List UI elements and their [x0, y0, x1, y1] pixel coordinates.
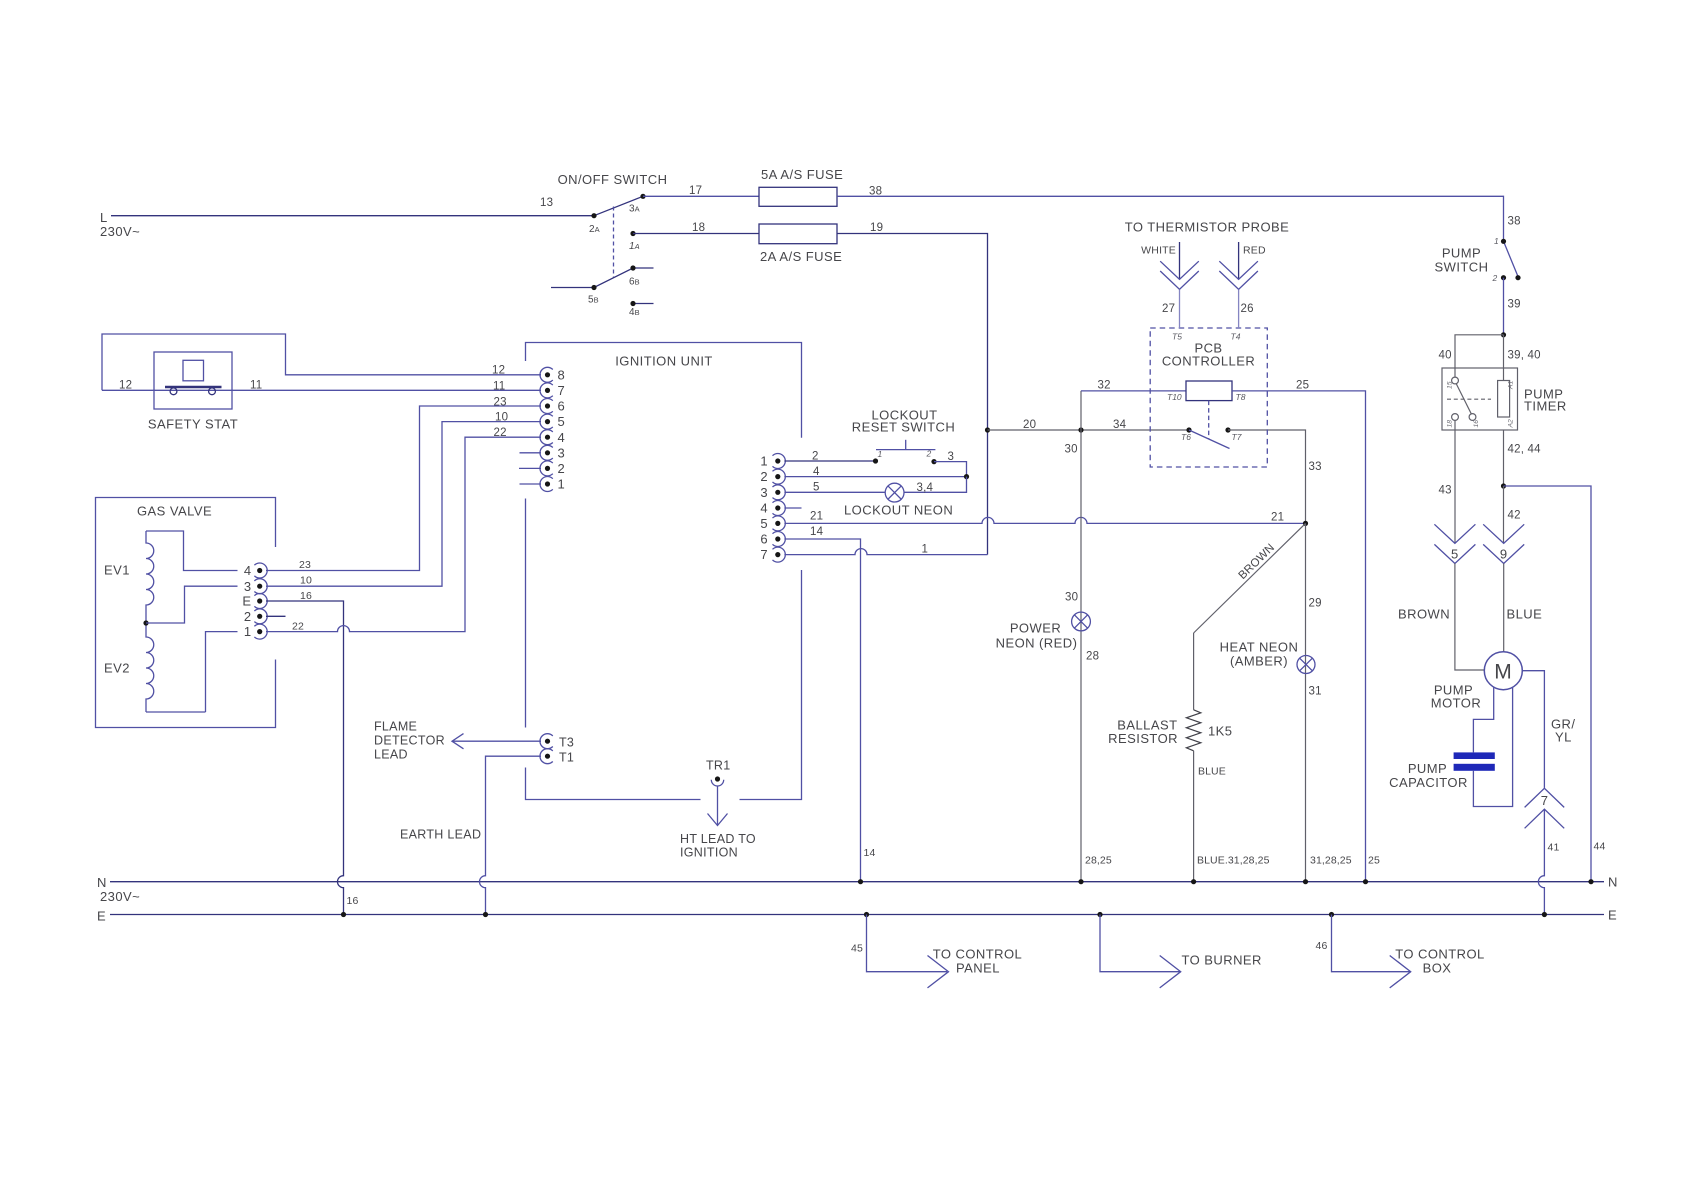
junction EV1-EV2 [143, 620, 148, 625]
svg-text:T3: T3 [559, 736, 574, 750]
svg-text:2: 2 [926, 449, 932, 459]
svg-text:T4: T4 [1231, 332, 1241, 342]
switch contact dot 1A [630, 231, 635, 236]
ignition terminal T1 [540, 749, 574, 765]
svg-text:5B: 5B [588, 295, 599, 306]
svg-text:7: 7 [760, 547, 768, 562]
ignition connector pin 7 [760, 547, 785, 562]
junction wire 3/4 [964, 474, 969, 479]
pump switch dot 2 [1501, 275, 1506, 280]
wire 3 from reset switch [934, 462, 967, 477]
wire 12 loop to ignition pin 8 [102, 334, 541, 390]
fuse F2 body [759, 224, 837, 244]
svg-text:FLAME: FLAME [374, 720, 417, 734]
svg-text:31,28,25: 31,28,25 [1310, 855, 1352, 867]
wire red lead [1238, 242, 1240, 279]
wire blue junction on N [1191, 879, 1196, 884]
svg-text:34: 34 [1113, 419, 1127, 431]
wire 27 [1179, 290, 1181, 328]
svg-text:2A A/S FUSE: 2A A/S FUSE [760, 249, 842, 264]
svg-text:EV1: EV1 [104, 563, 130, 578]
svg-text:1A: 1A [629, 241, 640, 252]
svg-text:44: 44 [1594, 841, 1606, 853]
HT lead arrow [708, 786, 728, 826]
svg-text:16: 16 [347, 895, 359, 907]
svg-text:5: 5 [813, 482, 820, 494]
svg-text:3A: 3A [629, 204, 640, 215]
flame detector lead label [374, 720, 445, 762]
HT lead label [680, 832, 756, 860]
junction 39/40 [1501, 332, 1506, 337]
wire EV1 top to pin 4 [146, 531, 238, 571]
pump motor label [1431, 683, 1481, 711]
pump timer label [1524, 387, 1567, 414]
ignition pin 1 stub [520, 483, 542, 485]
safety stat contact circle left [170, 388, 177, 395]
ballast resistor R1 1K5 [1186, 710, 1200, 751]
svg-text:1: 1 [558, 477, 566, 492]
svg-text:(AMBER): (AMBER) [1230, 654, 1288, 669]
svg-text:25: 25 [1296, 380, 1309, 392]
svg-text:E: E [242, 594, 251, 609]
pump timer circle 16 [1469, 414, 1476, 421]
svg-text:42, 44: 42, 44 [1508, 444, 1542, 456]
svg-text:1: 1 [878, 449, 883, 459]
wire 45 junction on E [864, 912, 869, 917]
svg-text:HEAT NEON: HEAT NEON [1220, 640, 1299, 655]
wire blue below resistor [1193, 751, 1195, 882]
wire to burner arrow [1100, 915, 1181, 988]
svg-text:T7: T7 [1232, 432, 1242, 442]
svg-text:30: 30 [1065, 444, 1078, 456]
wire 14 junction on N [858, 879, 863, 884]
pump switch dot 1 [1501, 239, 1506, 244]
safety stat contact bar [165, 386, 222, 388]
svg-text:16: 16 [300, 590, 312, 602]
svg-text:28,25: 28,25 [1085, 855, 1112, 867]
svg-text:1: 1 [922, 544, 929, 556]
ignition connector pin 3 [760, 485, 785, 500]
svg-text:2: 2 [812, 451, 819, 463]
svg-text:10: 10 [300, 575, 312, 587]
svg-text:E: E [97, 909, 106, 924]
svg-text:L: L [100, 210, 108, 225]
wire capacitor bottom loop [1473, 688, 1512, 807]
ignition unit pin 8 [540, 367, 565, 382]
pump capacitor label [1389, 761, 1468, 790]
PCB relay contact T7 dot [1225, 427, 1230, 432]
svg-text:SWITCH: SWITCH [1435, 260, 1489, 275]
solenoid EV2 coil [146, 623, 154, 712]
svg-text:8: 8 [558, 367, 566, 382]
svg-text:1: 1 [760, 454, 768, 469]
power neon label [996, 621, 1078, 651]
pump capacitor C1 plates [1454, 752, 1495, 770]
wire motor to GR/YL [1522, 671, 1544, 788]
ignition connector pin 1 [760, 454, 785, 469]
svg-text:16: 16 [1473, 420, 1480, 428]
svg-text:IGNITION: IGNITION [680, 846, 738, 860]
wire 32 [1081, 390, 1186, 392]
svg-text:BLUE.31,28,25: BLUE.31,28,25 [1197, 855, 1270, 867]
svg-text:11: 11 [250, 380, 262, 392]
svg-text:RESET SWITCH: RESET SWITCH [852, 420, 955, 435]
switch contact 4B stub [633, 303, 654, 305]
svg-text:45: 45 [851, 943, 863, 955]
svg-text:11: 11 [493, 381, 505, 393]
svg-text:14: 14 [810, 526, 824, 538]
wire 14 pin6 down to N [784, 539, 860, 882]
svg-text:42: 42 [1508, 510, 1521, 522]
svg-text:3: 3 [244, 579, 252, 594]
ignition terminal T3 [540, 734, 574, 750]
svg-text:7: 7 [1541, 793, 1549, 808]
ignition connector pin 6 [760, 532, 785, 547]
wire 17 [643, 195, 759, 197]
wire 42 [1503, 486, 1505, 543]
ignition pin 3 stub [520, 452, 542, 454]
svg-text:A1: A1 [1508, 380, 1515, 390]
pump timer blade [1456, 384, 1471, 414]
power neon lamp [1072, 612, 1091, 631]
pump switch dot 2b [1515, 275, 1520, 280]
wire 33 [1228, 430, 1306, 523]
lockout reset switch bracket [876, 440, 935, 450]
svg-text:T5: T5 [1172, 332, 1182, 342]
gas valve pin 2 [244, 609, 267, 624]
wire 40 [1455, 335, 1504, 377]
connector chevrons pin 5 [1434, 524, 1475, 563]
svg-text:2: 2 [760, 469, 768, 484]
switch contact dot 2A [591, 213, 596, 218]
svg-text:1: 1 [244, 624, 252, 639]
PCB coil to contact dashed link [1208, 401, 1210, 439]
svg-text:20: 20 [1023, 419, 1036, 431]
svg-text:43: 43 [1439, 485, 1452, 497]
pump motor M1 [1484, 652, 1522, 690]
gas valve pin E [242, 594, 267, 609]
svg-text:PUMP: PUMP [1442, 246, 1481, 261]
svg-text:HT LEAD TO: HT LEAD TO [680, 832, 756, 846]
svg-text:41: 41 [1548, 842, 1560, 854]
svg-text:IGNITION UNIT: IGNITION UNIT [615, 354, 713, 369]
svg-text:4: 4 [813, 466, 820, 478]
wire 46 junction on E [1329, 912, 1334, 917]
wire 16 gas valve pin E to earth [266, 601, 344, 915]
wire to timer A1 [1503, 335, 1505, 381]
svg-text:5: 5 [1451, 547, 1459, 562]
svg-text:22: 22 [292, 621, 304, 633]
svg-text:BLUE: BLUE [1198, 766, 1226, 778]
wire 41 junction on E [1542, 912, 1547, 917]
svg-text:BROWN: BROWN [1237, 542, 1278, 582]
ignition unit pin 5 [540, 414, 565, 429]
svg-text:T1: T1 [559, 751, 574, 765]
junction 42/44 [1501, 483, 1506, 488]
pump timer dashed line [1447, 398, 1491, 400]
svg-text:T8: T8 [1236, 392, 1246, 402]
switch contact dot 3A [640, 194, 645, 199]
svg-text:ON/OFF SWITCH: ON/OFF SWITCH [558, 172, 668, 187]
connector chevrons pin 7 up [1525, 788, 1565, 828]
svg-text:TO THERMISTOR PROBE: TO THERMISTOR PROBE [1125, 220, 1290, 235]
wire EV midpoint to pin 3 [146, 586, 238, 623]
lockout reset switch label [852, 408, 955, 435]
svg-text:3: 3 [760, 485, 768, 500]
svg-text:4: 4 [558, 430, 566, 445]
svg-text:3,4: 3,4 [917, 482, 934, 494]
PCB relay contact blade [1189, 430, 1230, 449]
svg-text:21: 21 [1271, 512, 1284, 524]
wire 19 [837, 234, 988, 555]
svg-text:LOCKOUT NEON: LOCKOUT NEON [844, 503, 953, 518]
svg-text:T6: T6 [1181, 432, 1191, 442]
svg-text:12: 12 [119, 380, 132, 392]
svg-text:39, 40: 39, 40 [1508, 350, 1541, 362]
svg-text:18: 18 [692, 222, 705, 234]
svg-text:PANEL: PANEL [956, 961, 1000, 976]
svg-text:5: 5 [558, 414, 566, 429]
heat neon lamp [1297, 656, 1315, 674]
PCB controller box dashed [1150, 328, 1267, 467]
connector chevrons red lead [1219, 261, 1258, 289]
junction 20/30 [1078, 427, 1083, 432]
svg-text:TO CONTROL: TO CONTROL [1395, 947, 1485, 962]
terminal TR1 pin [711, 776, 723, 786]
wire 25 [1232, 391, 1366, 882]
ignition unit pin 6 [540, 399, 565, 414]
svg-text:CAPACITOR: CAPACITOR [1389, 775, 1468, 790]
to control panel label [933, 947, 1023, 976]
svg-text:23: 23 [494, 397, 507, 409]
node L 230V~ live rail label [100, 210, 140, 239]
lockout neon lamp [885, 483, 904, 502]
svg-text:2: 2 [558, 461, 566, 476]
switch contact dot 6B [630, 265, 635, 270]
wire 38 [837, 196, 1504, 241]
wire E rail [110, 914, 1604, 916]
svg-text:6B: 6B [629, 277, 640, 288]
wire brown diagonal [1194, 523, 1306, 633]
heat neon label [1220, 640, 1299, 669]
svg-text:SAFETY STAT: SAFETY STAT [148, 417, 238, 432]
wire 43 [1454, 421, 1456, 544]
svg-text:CONTROLLER: CONTROLLER [1162, 354, 1255, 369]
svg-text:YL: YL [1555, 730, 1572, 745]
safety stat ST1 box [154, 352, 232, 409]
svg-text:N: N [1608, 875, 1618, 890]
wire 44 junction on N [1588, 879, 1593, 884]
wire L rail [111, 215, 594, 217]
ignition connector pin 2 [760, 469, 785, 484]
svg-text:TO BURNER: TO BURNER [1182, 953, 1262, 968]
svg-text:230V~: 230V~ [100, 889, 140, 904]
svg-text:POWER: POWER [1010, 621, 1061, 636]
ignition unit pin 4 [540, 430, 565, 445]
svg-text:18: 18 [1447, 420, 1454, 428]
gas valve pin 1 [244, 624, 267, 639]
wire 5 pin3 to lockout neon [784, 491, 885, 493]
svg-text:1: 1 [1494, 236, 1499, 246]
ignition pin 4 stub right [784, 507, 801, 509]
svg-text:LEAD: LEAD [374, 748, 408, 762]
svg-text:5: 5 [760, 516, 768, 531]
svg-text:TO CONTROL: TO CONTROL [933, 947, 1023, 962]
switch contact dot 5B [591, 285, 596, 290]
node N 230V~ label left [97, 875, 140, 904]
earth lead wire from T1 [480, 756, 541, 914]
svg-text:EV2: EV2 [104, 661, 130, 676]
wire 25 junction on N [1363, 879, 1368, 884]
wire 23 gas valve pin 4 to ignition pin 6 [266, 406, 541, 571]
PCB relay contact T6 dot [1186, 427, 1191, 432]
svg-text:15: 15 [1447, 381, 1454, 389]
wire 16 junction on E [341, 912, 346, 917]
flame detector lead wire and arrow [452, 734, 541, 749]
svg-text:39: 39 [1508, 299, 1521, 311]
wire blue to pump motor [1503, 564, 1505, 652]
svg-text:N: N [97, 875, 107, 890]
PCB controller label [1162, 341, 1255, 369]
wire 31 junction on N [1303, 879, 1308, 884]
svg-text:WHITE: WHITE [1141, 245, 1176, 257]
solenoid EV1 coil [146, 531, 154, 623]
wire 18 [633, 233, 759, 235]
burner junction on E [1097, 912, 1102, 917]
PCB relay coil [1186, 381, 1232, 401]
wire motor to capacitor left [1473, 687, 1493, 752]
gas valve pin 3 [244, 579, 267, 594]
svg-text:4: 4 [760, 501, 768, 516]
lockout reset switch SW contact dot 2 [931, 459, 936, 464]
wire white lead [1179, 242, 1181, 279]
svg-text:EARTH LEAD: EARTH LEAD [400, 828, 481, 842]
svg-text:TIMER: TIMER [1524, 399, 1567, 414]
pump timer box [1442, 368, 1518, 430]
wire 10 gas valve pin 3 to ignition pin 5 [266, 422, 541, 587]
svg-text:BOX: BOX [1423, 961, 1452, 976]
svg-text:28: 28 [1086, 651, 1099, 663]
svg-text:4: 4 [244, 563, 252, 578]
pump timer circle 15 [1452, 377, 1459, 384]
ignition unit U1 box [526, 343, 802, 800]
svg-text:12: 12 [492, 365, 505, 377]
svg-text:32: 32 [1098, 380, 1111, 392]
wire brown to pump motor [1455, 564, 1484, 671]
svg-text:9: 9 [1500, 547, 1508, 562]
svg-text:PUMP: PUMP [1408, 761, 1447, 776]
wire 20/34 [988, 429, 1190, 431]
pump timer coil [1498, 381, 1510, 418]
svg-text:BLUE: BLUE [1507, 607, 1543, 622]
gas valve pin 4 [244, 563, 267, 578]
svg-text:RED: RED [1243, 245, 1266, 257]
svg-text:21: 21 [810, 511, 823, 523]
svg-text:40: 40 [1439, 350, 1452, 362]
svg-text:38: 38 [1508, 216, 1521, 228]
gas valve box [96, 498, 276, 728]
wire 21 pin5 to heat neon branch [784, 517, 1305, 523]
svg-text:4B: 4B [629, 307, 640, 318]
ballast resistor label [1108, 718, 1178, 747]
svg-text:6: 6 [760, 532, 768, 547]
ignition unit pin 7 [540, 383, 565, 398]
svg-text:A2: A2 [1508, 419, 1515, 429]
GR/YL label [1551, 717, 1575, 745]
svg-text:29: 29 [1309, 598, 1322, 610]
to control box label [1395, 947, 1485, 976]
svg-text:7: 7 [558, 383, 566, 398]
svg-text:38: 38 [869, 186, 882, 198]
svg-text:6: 6 [558, 399, 566, 414]
svg-text:M: M [1494, 661, 1512, 684]
ignition connector pin 5 [760, 516, 785, 531]
pump switch blade [1504, 241, 1519, 276]
svg-text:30: 30 [1065, 592, 1078, 604]
svg-text:RESISTOR: RESISTOR [1108, 731, 1178, 746]
svg-text:14: 14 [864, 847, 876, 859]
wire EV2 bottom to pin 1 [146, 632, 238, 712]
wire 45 to control panel arrow [867, 915, 949, 988]
wire 33/29/31 lower vertical [1305, 523, 1307, 881]
wire 42,44 [1503, 430, 1505, 486]
switch link dashed [613, 207, 615, 278]
pump timer circle 18 [1452, 414, 1459, 421]
earth lead junction on E [483, 912, 488, 917]
svg-text:BROWN: BROWN [1398, 607, 1450, 622]
pump switch label [1435, 246, 1489, 275]
wire 2 pin1 to reset switch [784, 460, 875, 462]
junction wire 21/33 [1303, 521, 1308, 526]
wire 4 pin2 to junction [784, 476, 966, 478]
svg-text:33: 33 [1309, 461, 1322, 473]
wire 44 [1504, 486, 1592, 882]
ignition connector pin 4 [760, 501, 785, 516]
svg-text:3: 3 [558, 445, 566, 460]
ignition unit pin 1 [540, 477, 565, 492]
svg-text:TR1: TR1 [706, 759, 731, 773]
wire 41 to E [1538, 809, 1544, 914]
fuse F1 body [759, 187, 837, 206]
wire ballast top [1193, 633, 1195, 710]
connector chevrons white lead [1160, 261, 1199, 289]
wire 22 gas valve pin 1 to ignition pin 4 [266, 437, 541, 631]
svg-text:2A: 2A [589, 224, 600, 235]
svg-text:NEON (RED): NEON (RED) [996, 636, 1078, 651]
svg-text:GAS VALVE: GAS VALVE [137, 504, 212, 519]
svg-text:E: E [1608, 908, 1617, 923]
svg-text:46: 46 [1316, 940, 1328, 952]
connector chevrons pin 9 [1483, 524, 1524, 563]
svg-text:1K5: 1K5 [1208, 724, 1232, 739]
ignition pin 2 stub [519, 467, 541, 469]
lockout reset switch SW contact dot 1 [873, 458, 878, 463]
svg-text:27: 27 [1162, 303, 1175, 315]
svg-text:17: 17 [689, 185, 702, 197]
svg-text:19: 19 [870, 222, 883, 234]
wire 3,4 from lockout neon [904, 477, 967, 493]
ignition unit pin 2 [540, 461, 565, 476]
junction wire 19/20 [985, 427, 990, 432]
svg-text:2: 2 [1492, 273, 1498, 283]
svg-text:31: 31 [1309, 686, 1322, 698]
wire 1 pin7 to wire 19 [784, 549, 987, 555]
switch contact dot 4B [630, 301, 635, 306]
switch blade 2A-3A [594, 196, 643, 215]
svg-text:2: 2 [244, 609, 252, 624]
svg-text:26: 26 [1241, 303, 1254, 315]
svg-text:13: 13 [540, 197, 553, 209]
